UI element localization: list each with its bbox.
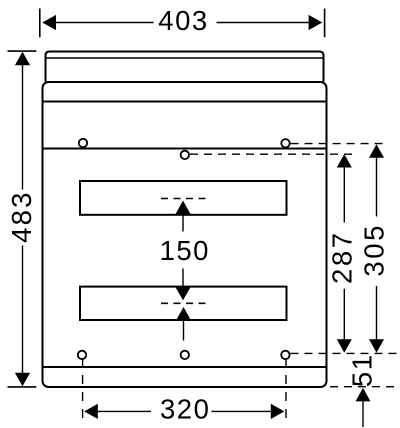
svg-text:287: 287	[327, 230, 358, 284]
dim 150 upper shaft	[182, 213, 184, 232]
dim 320 right arrow	[271, 404, 285, 419]
hole top-right	[281, 139, 289, 147]
dim 305 lower shaft	[376, 286, 378, 340]
dim 403 line left	[43, 22, 154, 24]
svg-text:305: 305	[358, 223, 389, 277]
dim 483 bottom arrow	[15, 373, 30, 387]
dim 150 down arrow	[176, 287, 191, 300]
dim 483 bottom tick	[8, 386, 37, 388]
dim 51 tail shaft	[362, 401, 364, 427]
lower window cutout	[80, 287, 287, 320]
dim 287 bottom arrow	[337, 339, 352, 353]
dim 320 line left	[85, 410, 151, 412]
dim 483 line upper	[22, 54, 24, 190]
hole top-left	[79, 139, 87, 147]
enclosure lid outline	[46, 52, 324, 82]
dashed reference line from top-right hole	[291, 143, 383, 145]
dim 305 bottom arrow	[369, 339, 384, 353]
svg-text:483: 483	[6, 190, 37, 242]
svg-text:403: 403	[158, 5, 208, 36]
dim 287 top arrow	[337, 154, 352, 168]
dim 150 lower shaft	[182, 269, 184, 289]
dim 483 line lower	[22, 246, 24, 385]
dim 305 top arrow	[369, 144, 384, 158]
dim 287 upper shaft	[343, 167, 345, 223]
dim 403 right tick	[324, 9, 326, 38]
upper mounting rail line	[43, 148, 327, 150]
dashed extension from bottom-left hole	[82, 358, 84, 420]
body bottom inner line	[43, 366, 327, 368]
dashed reference line from bottom-right hole	[291, 352, 399, 354]
dim 403 right arrow	[309, 15, 323, 30]
dim 483 top tick	[8, 50, 37, 52]
dim 403 line right	[217, 22, 322, 24]
svg-text:51: 51	[346, 354, 377, 388]
dim 403 left tick	[39, 9, 41, 38]
hole bottom-left	[78, 351, 86, 359]
body top inner line	[43, 101, 327, 103]
dim 403 left arrow	[42, 15, 56, 30]
dim 320 left arrow	[84, 404, 98, 419]
dim 150 upper arrow	[176, 201, 191, 214]
dashed reference line from top-center hole	[190, 153, 357, 155]
dim 150 lower up arrow	[176, 307, 191, 320]
upper window cutout	[80, 181, 287, 215]
dim 150 upper dashed centerline	[161, 198, 209, 200]
svg-text:150: 150	[160, 235, 210, 266]
dim 51 up arrow	[356, 388, 371, 402]
dim 287 lower shaft	[343, 289, 345, 340]
dim 483 top arrow	[15, 52, 30, 66]
lid rim line	[46, 57, 324, 59]
dim 320 line right	[212, 410, 284, 412]
svg-text:320: 320	[160, 394, 210, 425]
dashed extension from bottom-right hole	[285, 358, 287, 420]
dashed reference line at body bottom edge	[330, 386, 398, 388]
dim 150 lower tail shaft	[183, 320, 185, 341]
hole top-center	[181, 151, 189, 159]
hole bottom-right	[281, 351, 289, 359]
dim 305 upper shaft	[376, 157, 378, 217]
enclosure body outline	[43, 82, 327, 387]
dim 150 lower dashed centerline	[161, 302, 209, 304]
hole bottom-center	[181, 351, 189, 359]
